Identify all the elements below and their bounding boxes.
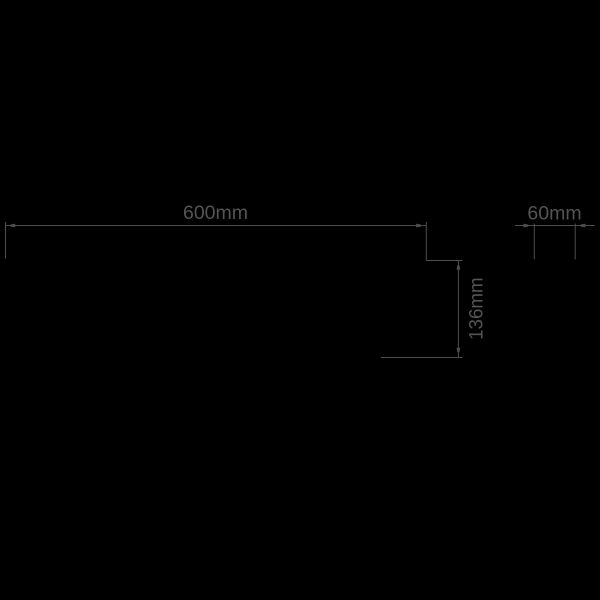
svg-text:136mm: 136mm [466, 277, 488, 340]
svg-text:600mm: 600mm [183, 202, 248, 224]
svg-text:60mm: 60mm [527, 202, 581, 224]
